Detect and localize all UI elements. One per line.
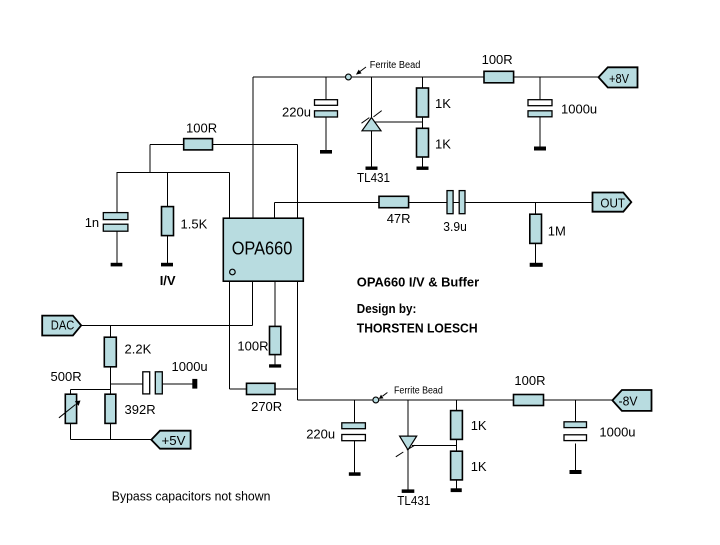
svg-text:+8V: +8V (609, 71, 629, 86)
svg-text:100R: 100R (482, 52, 513, 67)
svg-text:OPA660: OPA660 (232, 239, 293, 259)
svg-text:OUT: OUT (600, 195, 625, 210)
svg-text:Ferrite Bead: Ferrite Bead (394, 385, 443, 396)
svg-text:Ferrite Bead: Ferrite Bead (370, 60, 421, 71)
svg-text:1K: 1K (471, 459, 487, 474)
svg-text:1K: 1K (435, 96, 451, 111)
svg-text:1K: 1K (435, 136, 451, 151)
svg-text:500R: 500R (51, 369, 82, 384)
svg-text:1000u: 1000u (172, 359, 208, 374)
svg-text:Bypass capacitors not shown: Bypass capacitors not shown (112, 489, 271, 504)
svg-text:TL431: TL431 (357, 170, 390, 185)
svg-text:1000u: 1000u (561, 102, 597, 117)
svg-text:-8V: -8V (619, 393, 638, 408)
svg-text:1M: 1M (548, 223, 566, 238)
svg-text:TL431: TL431 (397, 493, 430, 508)
svg-text:220u: 220u (282, 104, 311, 119)
svg-text:270R: 270R (251, 399, 282, 414)
svg-text:+5V: +5V (162, 433, 186, 448)
svg-text:OPA660 I/V & Buffer: OPA660 I/V & Buffer (357, 275, 479, 290)
svg-text:392R: 392R (125, 402, 156, 417)
svg-text:DAC: DAC (51, 318, 75, 333)
svg-text:220u: 220u (306, 427, 335, 442)
svg-text:47R: 47R (387, 211, 411, 226)
svg-text:100R: 100R (186, 121, 217, 136)
svg-text:I/V: I/V (160, 273, 176, 288)
svg-text:3.9u: 3.9u (443, 219, 467, 234)
svg-text:100R: 100R (237, 338, 268, 353)
svg-text:1000u: 1000u (599, 425, 635, 440)
svg-text:2.2K: 2.2K (125, 341, 152, 356)
svg-text:1n: 1n (85, 215, 99, 230)
svg-text:100R: 100R (514, 373, 545, 388)
svg-text:1K: 1K (471, 418, 487, 433)
svg-text:1.5K: 1.5K (181, 217, 208, 232)
svg-text:THORSTEN LOESCH: THORSTEN LOESCH (357, 320, 478, 335)
svg-text:Design by:: Design by: (357, 301, 417, 316)
